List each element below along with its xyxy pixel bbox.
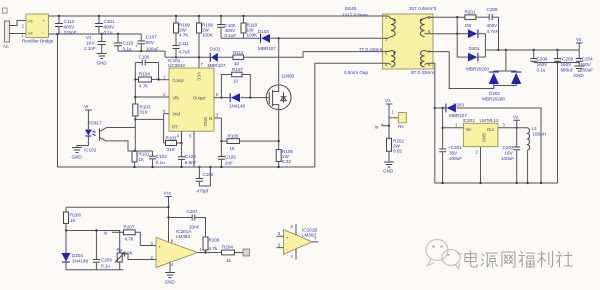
ground GND op-amp [165,273,176,285]
svg-text:C206: C206 [537,57,548,62]
svg-text:GND: GND [72,155,83,160]
svg-text:D203: D203 [453,103,464,108]
svg-text:Rs: Rs [398,124,404,129]
power port Vs [385,98,392,118]
svg-text:GND: GND [203,117,208,126]
capacitor C105 [218,155,236,168]
node R206/Rp row [65,229,67,231]
svg-text:0.1u: 0.1u [156,160,165,165]
node rail/L2 [526,182,528,184]
resistor R208 [203,237,220,253]
svg-text:IC202: IC202 [463,118,476,123]
wire bottom tie [66,269,124,271]
svg-text:0.1u: 0.1u [537,68,546,73]
pin 4 RT stub [181,131,183,155]
node rail/C104 left [198,166,200,168]
node Vcc/C207 [167,216,169,218]
pin 5 GND stub [193,131,195,167]
resistor R101 [132,151,150,167]
svg-text:R201: R201 [465,10,476,15]
diode D201 b [457,46,489,72]
svg-text:Vo: Vo [576,37,582,42]
wire C207 row [169,218,206,238]
svg-text:GND: GND [383,169,394,174]
potentiometer Rp 10K [115,248,134,270]
wire Vref to divider [135,114,163,120]
wire Vcc distribution [66,206,169,208]
svg-text:RT: RT [172,125,178,130]
wire VCC caps bottom [118,51,165,57]
port pad (feedback out) [243,249,250,256]
node return / V1 cap [101,33,103,35]
svg-text:C202: C202 [503,145,514,150]
svg-text:D202: D202 [489,91,500,96]
node Rp top [95,229,97,231]
capacitor C202 [501,128,520,183]
svg-text:MBR20200: MBR20200 [466,67,489,72]
node R104/C106 right [157,78,159,80]
svg-text:Ac: Ac [28,19,33,24]
svg-text:C209: C209 [487,7,498,12]
watermark text 利 [538,251,553,267]
capacitor C104 470pF (below rail) [196,167,214,194]
svg-text:R208: R208 [209,238,220,243]
wire op-amp inverting input [125,254,157,260]
node rail/C102 [151,166,153,168]
wire Rs stub [389,117,398,119]
svg-text:2.2nF: 2.2nF [84,46,96,51]
node C107 bottom [140,50,142,52]
node Is tap [388,125,390,127]
node rail/C206 [533,49,535,51]
node R103 bottom / Vref wire [134,118,136,120]
svg-text:C112: C112 [64,19,75,24]
node top rail / R109 [175,15,177,17]
svg-text:Vo: Vo [513,115,519,120]
svg-text:Is: Is [209,116,212,121]
resistor R104 [135,72,158,89]
resistor R202 shunt [387,118,405,162]
svg-text:MBR107: MBR107 [258,46,276,51]
svg-text:C203: C203 [101,258,112,263]
svg-text:LM393: LM393 [176,234,190,239]
svg-text:R102: R102 [166,136,177,141]
svg-text:R105: R105 [228,134,239,139]
svg-text:Vfb: Vfb [173,96,180,101]
node rail/C104 right [209,166,211,168]
pin 3 Out stub [498,127,528,129]
wire caps bottom tie [534,62,580,64]
svg-text:16V: 16V [505,151,514,156]
svg-text:0.22: 0.22 [282,159,291,164]
diode D102 MBR107 [208,47,226,69]
svg-text:1K: 1K [70,218,77,223]
svg-text:C104: C104 [203,172,214,177]
winding aux 2-4 [383,51,396,68]
svg-text:VCC: VCC [197,72,202,81]
power port Vo [576,37,583,50]
svg-text:0.1u: 0.1u [101,264,110,269]
node caps bottom/C205 drop [556,61,558,63]
svg-text:50V: 50V [146,40,155,45]
svg-text:+C204: +C204 [579,57,593,62]
svg-text:1KV: 1KV [86,41,96,46]
node D203 tap [434,107,436,109]
watermark text 社 [556,252,572,268]
capacitor C205 [554,50,574,73]
wire D202 return to pin7 [433,52,494,89]
capacitor C204 [576,50,594,73]
node top rail / C101 [98,15,100,17]
wire op-amp gnd pin [169,263,171,273]
node rail/C205 [556,49,558,51]
svg-text:Vcc: Vcc [164,191,172,196]
resistor R108 [197,16,214,57]
ground GND output [574,66,585,78]
node top rail / C112 [58,15,60,17]
svg-text:1k: 1k [226,258,232,263]
watermark logo bird [426,240,462,270]
svg-text:0.5mm Gap: 0.5mm Gap [344,70,368,75]
svg-text:C106: C106 [139,55,150,60]
wire comp node vertical [158,63,160,80]
svg-text:IC102: IC102 [84,148,97,153]
capacitor C201 [439,145,462,183]
sheet corner mark [3,8,8,13]
svg-text:C111: C111 [179,41,190,46]
svg-text:AC: AC [3,44,9,49]
svg-text:D201: D201 [469,46,480,51]
svg-text:100uF: 100uF [501,156,514,161]
svg-text:R107: R107 [232,67,243,72]
power port Vr (opto feed) [84,104,92,126]
ground GND opto [72,148,83,160]
ground GND shunt [383,162,394,174]
wire feedback column [134,63,136,105]
svg-text:470pf: 470pf [197,189,209,194]
svg-text:Comp: Comp [173,78,185,83]
capacitor C111 4.7uF [173,41,191,57]
node rail/D202 [505,49,507,51]
svg-text:EE40: EE40 [345,6,357,11]
svg-text:+C201: +C201 [448,145,462,150]
resistor R106 (source sense) [276,149,293,167]
svg-text:10K: 10K [125,251,134,256]
svg-text:PC817: PC817 [88,121,102,126]
svg-text:+C205: +C205 [560,57,574,62]
svg-text:1K: 1K [139,157,146,162]
svg-text:GND: GND [165,280,176,285]
node sense/C105 [220,140,222,142]
node top rail / R110 [242,15,244,17]
resistor R102 [164,119,182,152]
capacitor C107 (polarized) [135,34,159,52]
svg-text:+: + [135,44,138,49]
optocoupler IC102 PC817 LED [77,121,102,153]
svg-text:1W: 1W [465,23,473,28]
capacitor C209 [487,7,499,50]
wire D201 anode column [456,17,458,57]
winding secondary 7-8 [420,50,433,68]
wire connector pin2 to bridge [10,21,27,26]
node rail/R106 [278,166,280,168]
wire aux pin4 to ground rail [315,63,383,167]
transistor Q1 11N90 MOSFET [266,74,294,110]
node top rail / R108 [198,15,200,17]
ground GND (earth) [97,54,108,66]
pin 2 Vfb stub [135,96,169,98]
svg-text:C207: C207 [187,209,198,214]
svg-text:R111: R111 [233,50,244,55]
svg-text:4.7k: 4.7k [139,84,148,89]
wire VCC / aux feed [165,52,303,58]
wire op-amp non-inverting input [140,245,156,247]
pin 1 Comp stub [159,79,169,81]
svg-text:Rp: Rp [117,248,123,253]
op-amp/controller IC101 UC3843 [168,58,214,131]
pin 2 GND stub [480,147,482,183]
diode D203 MBR107 [446,103,467,119]
svg-text:D103: D103 [258,29,269,34]
svg-text:0.02: 0.02 [393,149,402,154]
svg-text:10: 10 [233,79,239,84]
svg-text:Vref: Vref [173,112,181,117]
node RT pin / R102 / C103 [180,142,182,144]
capacitor C203 [93,231,113,270]
capacitor C102 [149,151,167,167]
watermark text 网 [502,252,515,267]
svg-text:C102: C102 [156,154,167,159]
capacitor C207 [187,209,200,230]
node rail/D203 return [540,182,542,184]
op-amp IC201A LM393 [151,229,203,268]
svg-text:C107: C107 [146,35,157,40]
connector J1 (AC input) [3,21,10,49]
resistor R103 [133,104,151,128]
svg-text:GND: GND [482,133,487,142]
svg-text:680uF: 680uF [561,68,574,73]
svg-text:UC3843: UC3843 [168,63,185,68]
diode D101 1N4148 [229,93,246,108]
svg-text:5T 0.43mm: 5T 0.43mm [411,70,434,75]
svg-text:Output: Output [193,96,206,101]
node rail/C105 [220,166,222,168]
pin 7 VCC stub [198,57,200,68]
capacitor C206 [530,50,548,73]
svg-text:0.1u: 0.1u [104,30,113,35]
svg-text:31K: 31K [140,110,149,115]
wire secondary bottom rail [435,182,558,184]
wire pin8 down to secondary return [433,63,435,183]
diode D201 a [457,29,485,38]
node return / C110 [117,33,119,35]
rectifier bridge B1 [22,14,54,44]
node pin5/D201 branch [456,16,458,18]
wire bridge minus rail [49,33,142,35]
svg-text:C105: C105 [225,155,236,160]
pin 1 Vin stub [443,127,464,129]
svg-text:D204: D204 [72,253,83,258]
svg-text:V1: V1 [86,35,92,40]
wire opto emitter [106,141,152,151]
wire MOSFET drain [278,38,280,84]
regulator IC202 LM78L12 [463,118,500,147]
wire Rp top row [66,231,120,254]
wire column to R101 [134,128,136,152]
svg-text:4.7k: 4.7k [209,246,218,251]
capacitor V1 2.2nF Y-cap [84,34,106,53]
wire secondary pin5 [433,16,465,18]
capacitor C100 [217,16,236,38]
svg-text:4.7k: 4.7k [125,237,134,242]
wire HV+ top rail [49,15,383,17]
svg-text:4.7K: 4.7K [179,33,189,38]
node column/Vfb [134,96,136,98]
resistor R204 [222,245,244,264]
svg-text:R206: R206 [70,213,81,218]
wire op-amp output [198,252,222,254]
svg-text:1N4148: 1N4148 [229,104,246,109]
diode D103 MBR107 [258,29,276,51]
node D201 anode tie [456,33,458,35]
resistor R206 [64,207,82,253]
svg-text:L2: L2 [532,126,538,131]
svg-text:LM78L12: LM78L12 [480,118,500,123]
capacitor C101 [95,16,115,35]
capacitor C103 [178,143,197,167]
inductor L2 150uH [528,126,546,183]
svg-text:220nF: 220nF [64,30,77,35]
resistor R110 [241,16,258,38]
wire output rail [485,49,579,51]
net label Is stub [104,231,124,236]
node rail/C201 [441,182,443,184]
pin 3 Isense stub [214,117,221,119]
svg-text:31K: 31K [167,147,176,152]
svg-text:6.8nF: 6.8nF [185,160,197,165]
resistor R201 [465,10,489,29]
capacitor C110 [114,34,134,52]
node Vin stub [441,127,443,129]
node R208/output [204,251,206,253]
svg-text:4.7uF: 4.7uF [179,50,191,55]
diode D202 a [489,50,517,84]
node rail/C209 [497,49,499,51]
watermark text 福 [519,252,535,268]
node rail/R101 [133,166,135,168]
node return / drop [56,33,58,35]
svg-text:R207: R207 [124,225,135,230]
resistor R111 [233,50,244,66]
svg-text:150uH: 150uH [533,132,547,137]
resistor R107 (parallel path) [221,67,250,98]
diode D204 1N4148 [62,253,89,270]
node Out/Vo2 [516,127,518,129]
power port Vo2 [513,115,520,128]
node output/R107 left [220,96,222,98]
sense connector Rs (secondary) [398,113,406,130]
svg-text:400V: 400V [64,25,76,30]
node top rail / C100 [220,15,222,17]
node gate/R107 right [249,96,251,98]
svg-text:35V: 35V [449,151,458,156]
optocoupler IC102 PC817 transistor [100,128,107,141]
winding secondary 5-6 [420,15,433,37]
resistor R105 [221,134,239,152]
svg-text:Out: Out [487,127,495,132]
svg-text:GND: GND [97,61,108,66]
svg-text:Vr: Vr [84,104,89,109]
svg-text:100uF: 100uF [449,156,462,161]
wire primary pin3 [279,37,383,39]
svg-text:MBR107: MBR107 [208,63,226,68]
wire pin6 to D201 [433,33,457,35]
watermark text 电 [465,251,477,267]
svg-text:4.7nF: 4.7nF [487,29,499,34]
svg-text:D102: D102 [210,47,221,52]
node R101 top [133,150,135,152]
wire current sense [240,140,279,142]
power port Vcc (op-amp) [164,191,172,244]
svg-text:R204: R204 [222,245,233,250]
wire Isense pin to filter [220,118,222,156]
svg-text:10: 10 [234,61,240,66]
svg-text:11N90: 11N90 [281,74,295,79]
svg-text:1N4148: 1N4148 [72,259,89,264]
watermark text 源 [481,253,497,267]
transformer T1 EE40 [342,6,437,75]
wire Vin column [442,108,444,149]
svg-text:C103: C103 [185,154,196,159]
svg-text:0.1uF: 0.1uF [225,33,237,38]
wire aux pin2 down [303,51,383,53]
svg-text:Rectifier Bridge: Rectifier Bridge [22,39,54,44]
wire D201 cathode tie [484,34,486,57]
wire MOSFET source [278,110,280,150]
svg-text:MBR20200: MBR20200 [482,97,505,102]
wire connector pin1 to bridge [10,33,27,35]
svg-text:100K: 100K [202,33,214,38]
svg-text:400V: 400V [487,23,499,28]
pin 8 Vref stub [164,113,169,115]
node Vin column top [441,107,443,109]
winding primary 1-3 [383,15,396,42]
node VCC pin junction [198,56,200,58]
node column/R104 [134,78,136,80]
diode D202 b [482,71,521,102]
svg-text:Vin: Vin [466,127,473,132]
svg-text:C110: C110 [123,41,134,46]
node drain / snubber / primary pin3 [278,37,280,39]
wire return drop to bottom ground rail [57,34,59,167]
svg-text:100K: 100K [247,33,259,38]
svg-text:Vs: Vs [385,98,391,103]
capacitor C112 [55,16,77,35]
node source/sense [278,140,280,142]
node rail/IC202 gnd [479,182,481,184]
svg-text:GND: GND [574,73,585,78]
svg-text:Ac: Ac [28,31,33,36]
svg-text:131T 0.5mm: 131T 0.5mm [342,13,368,18]
wire opto collector [106,127,135,129]
node Vcc/dist [167,206,169,208]
wire output node [214,97,267,99]
wire Is stub [382,124,389,126]
svg-text:400V: 400V [104,25,116,30]
svg-text:1K: 1K [230,146,237,151]
node rail/C202 [516,182,518,184]
capacitor C106 [135,55,158,66]
